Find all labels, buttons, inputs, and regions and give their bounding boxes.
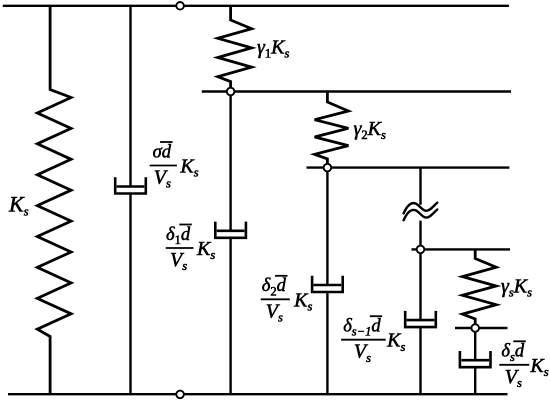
wire: top bus bar xyxy=(3,5,509,7)
label sigma: overbar on d xyxy=(160,141,173,143)
damper delta_s*d/Vs*Ks: piston plate xyxy=(461,359,489,362)
damper delta2*d/Vs*Ks: cylinder cup xyxy=(312,276,343,292)
wire: riser from break symbol to node xyxy=(419,221,421,250)
damper delta_s*d/Vs*Ks: cylinder cup xyxy=(460,351,491,367)
damper delta2*d/Vs*Ks: piston plate xyxy=(314,284,342,287)
wire: riser from bar3 to break symbol xyxy=(419,168,421,205)
spring gamma1*Ks xyxy=(218,6,252,92)
damper delta_{s-1}*d/Vs*Ks: rod (bottom) xyxy=(419,327,421,394)
damper sigma*d/Vs*Ks: cylinder cup xyxy=(115,177,146,193)
label delta_{s-1}: overbar on d xyxy=(370,315,382,317)
damper delta_s*d/Vs*Ks: rod (top) xyxy=(474,328,476,361)
label delta_s: overbar on d xyxy=(513,340,526,342)
wire: bottom bus bar xyxy=(8,393,508,395)
wire: bar 5 (under gamma_s) xyxy=(455,327,508,329)
node: junction gamma1/bar2 xyxy=(227,88,235,96)
damper delta_s*d/Vs*Ks: rod (bottom) xyxy=(474,367,476,394)
damper delta1*d/Vs*Ks: rod (bottom) xyxy=(229,238,231,394)
damper delta_{s-1}*d/Vs*Ks: rod (top) xyxy=(419,249,421,321)
wire: bar 3 (under gamma2) xyxy=(307,166,510,168)
break symbol: lower wave xyxy=(404,210,438,221)
damper delta1*d/Vs*Ks: rod (top) xyxy=(229,92,231,232)
node: junction riser/bar4 xyxy=(417,246,425,254)
damper sigma*d/Vs*Ks: rod (bottom) xyxy=(129,194,131,395)
spring gamma2*Ks xyxy=(315,92,349,168)
label delta2*d/Vs*Ks: fraction bar xyxy=(261,298,290,300)
wire: bar 2 (under gamma1) xyxy=(202,90,511,92)
label sigma*d/Vs*Ks: fraction bar xyxy=(150,165,177,167)
break symbol: upper wave xyxy=(404,203,438,214)
label delta_s*d/Vs*Ks: fraction bar xyxy=(499,364,529,366)
node: top terminal xyxy=(176,2,184,10)
damper delta_{s-1}*d/Vs*Ks: cylinder cup xyxy=(405,311,436,327)
damper delta2*d/Vs*Ks: rod (top) xyxy=(326,168,328,286)
damper sigma*d/Vs*Ks: piston plate xyxy=(117,185,145,188)
node: junction gamma2/bar3 xyxy=(324,164,332,172)
spring gamma_s*Ks xyxy=(462,249,496,328)
spring Ks (leftmost branch) xyxy=(37,6,71,394)
node: junction gamma_s/bar5 xyxy=(471,324,479,332)
label delta1*d/Vs*Ks: fraction bar xyxy=(166,247,194,249)
label delta1: overbar on d xyxy=(179,224,192,226)
damper sigma*d/Vs*Ks: rod (top) xyxy=(129,6,131,188)
svg-text:σd: σd xyxy=(153,142,172,162)
damper delta_{s-1}*d/Vs*Ks: piston plate xyxy=(407,319,435,322)
damper delta2*d/Vs*Ks: rod (bottom) xyxy=(326,292,328,394)
damper delta1*d/Vs*Ks: piston plate xyxy=(217,230,245,233)
wire: bar 4 (under break riser) xyxy=(412,248,511,250)
damper delta1*d/Vs*Ks: cylinder cup xyxy=(215,222,246,238)
label delta2: overbar on d xyxy=(275,275,288,277)
node: bottom terminal xyxy=(176,391,184,399)
label delta_{s-1}*d/Vs*Ks: fraction bar xyxy=(341,339,386,341)
